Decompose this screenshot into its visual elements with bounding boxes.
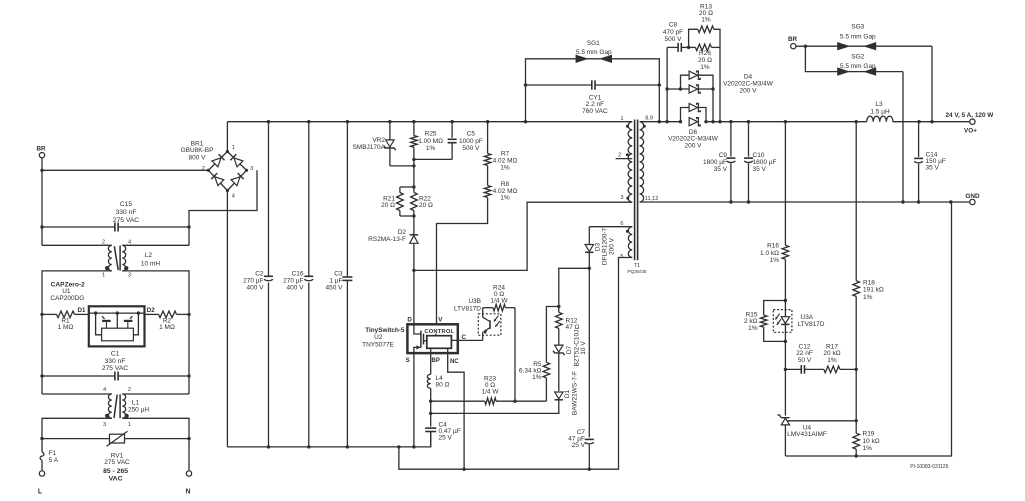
capacitor C8 470pF 500V bbox=[667, 46, 678, 48]
optocoupler U3B LTV817D phototransistor bbox=[478, 314, 501, 335]
svg-text:BP: BP bbox=[432, 358, 440, 364]
svg-text:1%: 1% bbox=[500, 164, 510, 171]
capacitor C15 330nF 275VAC bbox=[42, 226, 115, 228]
wire source rail B bbox=[399, 258, 632, 470]
svg-text:CONTROL: CONTROL bbox=[424, 329, 454, 335]
wire bridge pin4 to return rail bbox=[226, 191, 228, 447]
svg-text:SMBJ170A: SMBJ170A bbox=[352, 144, 385, 151]
diode D4 output rectifier lower bbox=[667, 88, 713, 90]
svg-text:200 V: 200 V bbox=[685, 143, 703, 150]
svg-text:1: 1 bbox=[128, 422, 131, 428]
terminal L bbox=[39, 471, 44, 476]
resistor R17 20kohm bbox=[824, 366, 840, 373]
svg-text:BAW21WS-7-F: BAW21WS-7-F bbox=[571, 371, 578, 415]
inductor L1 250uH common-mode choke bbox=[42, 393, 112, 395]
resistors R21 R22 20ohm parallel bbox=[412, 185, 415, 188]
svg-text:1%: 1% bbox=[532, 374, 542, 381]
svg-text:1%: 1% bbox=[827, 357, 837, 364]
resistor R15 2kohm bbox=[764, 301, 786, 316]
svg-text:1.5 µH: 1.5 µH bbox=[870, 109, 890, 116]
wire VR2 to clamp node bbox=[390, 165, 414, 167]
CAPZero internal wire bbox=[89, 312, 145, 314]
svg-text:1/4 W: 1/4 W bbox=[491, 298, 509, 305]
node R2 row right bbox=[187, 313, 190, 316]
node R13 tap bbox=[687, 46, 690, 49]
wire S pin to source rail bbox=[413, 353, 415, 447]
svg-text:8,9: 8,9 bbox=[645, 116, 653, 122]
svg-text:1%: 1% bbox=[863, 294, 873, 301]
wire to bridge pin 2 bbox=[42, 169, 208, 171]
svg-text:GBU8K-BP: GBU8K-BP bbox=[181, 147, 214, 154]
svg-text:500 V: 500 V bbox=[462, 145, 480, 152]
svg-text:1 MΩ: 1 MΩ bbox=[159, 324, 175, 331]
svg-text:6: 6 bbox=[620, 221, 623, 227]
svg-text:1%: 1% bbox=[748, 325, 758, 332]
svg-text:3: 3 bbox=[620, 195, 623, 201]
wire source rail A bbox=[227, 432, 430, 447]
svg-text:F1: F1 bbox=[49, 450, 57, 457]
capacitor C2 270uF 400V bbox=[268, 122, 270, 277]
svg-text:191 kΩ: 191 kΩ bbox=[863, 287, 884, 294]
resistor R23 0ohm bbox=[431, 400, 485, 402]
svg-text:SG1: SG1 bbox=[587, 40, 600, 47]
resistor R16 1.0kohm bbox=[782, 245, 789, 259]
capacitor C10 1800uF 35V bbox=[748, 122, 750, 157]
U2 internal MOSFET bbox=[414, 324, 421, 334]
svg-text:S: S bbox=[406, 357, 410, 364]
svg-text:250 µH: 250 µH bbox=[128, 406, 149, 413]
svg-text:NC: NC bbox=[450, 359, 459, 365]
node RV1 right bbox=[187, 437, 190, 440]
wire D3 node to divider bbox=[559, 268, 590, 306]
capacitor C7 47uF 25V bbox=[588, 268, 590, 437]
svg-text:400 V: 400 V bbox=[287, 285, 305, 292]
svg-text:C1: C1 bbox=[111, 351, 120, 358]
IC U1 CAPZero box bbox=[89, 306, 145, 346]
node R23/R24 bbox=[513, 400, 516, 403]
capacitor C5 1000pF 500V bbox=[451, 122, 453, 138]
terminal BR (primary DC bus sense) bbox=[39, 153, 44, 158]
svg-text:10 V: 10 V bbox=[580, 341, 587, 355]
capacitor CY1 2.2nF 760VAC bbox=[526, 84, 592, 86]
svg-text:C5: C5 bbox=[467, 131, 476, 138]
svg-text:5.5 mm Gap: 5.5 mm Gap bbox=[840, 34, 876, 41]
svg-text:C8: C8 bbox=[669, 22, 678, 29]
svg-text:35 V: 35 V bbox=[714, 166, 728, 173]
svg-text:200 V: 200 V bbox=[740, 87, 758, 94]
svg-text:1.00 MΩ: 1.00 MΩ bbox=[418, 138, 443, 145]
svg-text:GND: GND bbox=[965, 193, 980, 200]
node SG2 tap bbox=[804, 45, 807, 48]
wire feedback column bbox=[784, 122, 786, 246]
svg-text:N: N bbox=[185, 489, 190, 496]
wire right rail from bridge pin3 jog bbox=[189, 170, 257, 245]
svg-text:VAC: VAC bbox=[109, 475, 123, 482]
T1 secondary winding pins 8,9 - 11,12 bbox=[640, 122, 644, 202]
node R1 row left bbox=[40, 313, 43, 316]
svg-text:VO+: VO+ bbox=[964, 128, 977, 135]
node BP/line2 bbox=[430, 401, 432, 413]
capacitor C14 150uF 35V bbox=[918, 122, 920, 157]
resistor R18 191kohm bbox=[855, 122, 857, 281]
svg-text:25 V: 25 V bbox=[572, 442, 586, 449]
zener diode D7 BZT52-C10J 10V bbox=[558, 328, 560, 344]
resistor R24 0ohm bbox=[483, 307, 493, 309]
svg-text:1%: 1% bbox=[500, 195, 510, 202]
resistor R8 4.02Mohm bbox=[487, 166, 489, 186]
spark gap SG2 5.5mm bbox=[805, 46, 903, 71]
optocoupler U3A LTV817D LED bbox=[784, 301, 786, 342]
svg-text:270 µF: 270 µF bbox=[283, 278, 303, 285]
wire secondary return rail bbox=[640, 201, 970, 203]
svg-text:C15: C15 bbox=[120, 201, 133, 208]
svg-text:C16: C16 bbox=[292, 271, 304, 278]
terminal VO+ bbox=[970, 119, 975, 124]
wire SG3 riser to VO+ bbox=[931, 46, 933, 122]
svg-text:3: 3 bbox=[103, 422, 106, 428]
svg-text:TinySwitch-5: TinySwitch-5 bbox=[365, 327, 405, 334]
node RV1 left bbox=[40, 437, 43, 440]
svg-text:1%: 1% bbox=[701, 17, 711, 24]
svg-text:L2: L2 bbox=[145, 252, 153, 259]
T1 primary winding pins 1-2-3 bbox=[628, 122, 632, 203]
svg-text:800 V: 800 V bbox=[189, 154, 207, 161]
svg-text:85 - 265: 85 - 265 bbox=[103, 468, 128, 475]
node BP/line1 bbox=[430, 388, 432, 401]
spark gap SG1 5.5mm bbox=[526, 59, 660, 85]
node bias divider top bbox=[557, 305, 560, 308]
svg-text:20 Ω: 20 Ω bbox=[419, 202, 433, 209]
wire BP pin bbox=[430, 348, 432, 374]
svg-text:275 VAC: 275 VAC bbox=[113, 217, 139, 224]
svg-text:270 µF: 270 µF bbox=[243, 278, 263, 285]
U2 CONTROL block bbox=[427, 336, 452, 349]
IC U2 TinySwitch-5 TNY5077E bbox=[407, 324, 457, 353]
node D3 cathode bbox=[588, 267, 591, 270]
node C12 row bbox=[784, 341, 786, 415]
svg-text:R25: R25 bbox=[425, 131, 437, 138]
T1 bias winding pins 6-5 bbox=[628, 227, 632, 258]
svg-text:D1: D1 bbox=[78, 307, 86, 314]
svg-text:25 V: 25 V bbox=[439, 434, 453, 441]
svg-text:500 V: 500 V bbox=[665, 36, 683, 43]
wire B+ rail bbox=[227, 121, 632, 123]
svg-text:1%: 1% bbox=[863, 445, 873, 452]
svg-text:U3B: U3B bbox=[468, 298, 481, 305]
bridge rectifier BR1 GBU8K-BP 800V bbox=[208, 152, 246, 191]
svg-text:2: 2 bbox=[202, 166, 205, 172]
wire C pin bbox=[451, 339, 482, 341]
svg-text:275 VAC: 275 VAC bbox=[102, 365, 128, 372]
resistor R1 1Mohm bbox=[42, 313, 57, 315]
node R25/C5 bottom bbox=[412, 158, 415, 161]
svg-text:C2: C2 bbox=[255, 271, 264, 278]
svg-text:10 kΩ: 10 kΩ bbox=[863, 438, 880, 445]
svg-text:1 µF: 1 µF bbox=[329, 278, 342, 285]
svg-text:R7: R7 bbox=[501, 151, 510, 158]
shunt regulator U4 LMV431AIMF bbox=[778, 415, 790, 418]
svg-text:1: 1 bbox=[620, 116, 623, 122]
resistor R19 10kohm bbox=[853, 433, 860, 449]
wire R24 riser bbox=[514, 308, 516, 402]
node drain bbox=[412, 269, 415, 272]
svg-text:2: 2 bbox=[128, 387, 131, 393]
svg-text:D: D bbox=[407, 316, 412, 323]
svg-text:SG3: SG3 bbox=[851, 23, 864, 30]
diode D2 RS2MA-13-F bbox=[413, 216, 415, 244]
svg-text:1000 pF: 1000 pF bbox=[459, 138, 483, 145]
svg-text:1/4 W: 1/4 W bbox=[482, 388, 500, 395]
svg-text:35 V: 35 V bbox=[926, 164, 940, 171]
diode D6 output rectifier lower bbox=[689, 118, 697, 126]
svg-text:1%: 1% bbox=[700, 64, 710, 71]
capacitor C4 0.47uF 25V bbox=[430, 413, 432, 426]
wire feedback bottom rail bbox=[785, 202, 951, 456]
capacitor C9 1800uF 35V bbox=[730, 122, 732, 157]
svg-text:20 Ω: 20 Ω bbox=[381, 202, 395, 209]
node C1 right bbox=[187, 374, 190, 377]
resistor R26 20ohm bbox=[695, 44, 711, 51]
node R15 bottom bbox=[784, 340, 787, 343]
inductor L3 1.5uH bbox=[867, 116, 893, 122]
svg-text:4: 4 bbox=[232, 194, 235, 200]
terminal GND bbox=[970, 199, 975, 204]
svg-text:5: 5 bbox=[620, 254, 623, 260]
svg-text:50 V: 50 V bbox=[798, 357, 812, 364]
capacitor C3 1uF 450V bbox=[346, 122, 348, 277]
wire NC pin routing bbox=[448, 348, 464, 469]
resistor R2 1Mohm bbox=[145, 313, 159, 315]
svg-text:1: 1 bbox=[232, 145, 235, 151]
fuse F1 5A bbox=[41, 452, 43, 460]
wire drain node to D pin bbox=[413, 270, 415, 324]
svg-text:400 V: 400 V bbox=[247, 285, 265, 292]
svg-text:330 nF: 330 nF bbox=[116, 209, 137, 216]
svg-text:10 mH: 10 mH bbox=[141, 261, 160, 268]
svg-text:TNY5077E: TNY5077E bbox=[362, 341, 394, 348]
wire R8 to V pin bbox=[437, 198, 488, 325]
svg-text:U2: U2 bbox=[374, 334, 383, 341]
svg-text:5 A: 5 A bbox=[49, 457, 59, 464]
varistor RV1 275VAC bbox=[42, 438, 110, 440]
svg-text:330 nF: 330 nF bbox=[105, 358, 126, 365]
svg-text:L: L bbox=[38, 489, 43, 496]
wire U4 reference bbox=[787, 420, 856, 422]
svg-text:760 VAC: 760 VAC bbox=[582, 108, 608, 115]
svg-text:BR: BR bbox=[788, 36, 798, 43]
svg-text:200 V: 200 V bbox=[608, 237, 615, 255]
svg-text:2: 2 bbox=[102, 240, 105, 246]
svg-text:LTV817D: LTV817D bbox=[454, 306, 481, 313]
node: BR wire junction bbox=[40, 169, 43, 172]
wire BR terminal to node bbox=[41, 158, 43, 170]
svg-text:4: 4 bbox=[103, 387, 106, 393]
diode D3 DFLR1200-7 200V bbox=[589, 226, 632, 228]
svg-text:2: 2 bbox=[618, 152, 621, 158]
svg-text:5.5 mm Gap: 5.5 mm Gap bbox=[840, 63, 876, 70]
svg-text:5.5 mm Gap: 5.5 mm Gap bbox=[576, 49, 612, 56]
wire drain node to transformer pin3 bbox=[414, 202, 632, 270]
diode D4 output rectifier upper bbox=[681, 75, 714, 89]
resistor R25 1.00Mohm bbox=[413, 122, 415, 136]
svg-text:3: 3 bbox=[250, 166, 253, 172]
svg-text:1800 µF: 1800 µF bbox=[703, 159, 727, 166]
svg-text:470 pF: 470 pF bbox=[663, 29, 683, 36]
svg-text:1.0 kΩ: 1.0 kΩ bbox=[760, 250, 779, 257]
diode D6 output rectifier upper bbox=[681, 108, 707, 122]
svg-text:275 VAC: 275 VAC bbox=[104, 459, 130, 466]
svg-text:D3: D3 bbox=[594, 242, 601, 251]
capacitor C16 270uF 400V bbox=[308, 122, 310, 277]
svg-text:T1: T1 bbox=[634, 263, 640, 269]
svg-text:BR: BR bbox=[36, 146, 46, 153]
svg-text:L3: L3 bbox=[875, 101, 883, 108]
resistor R12 47ohm bbox=[558, 307, 560, 313]
svg-text:D4: D4 bbox=[744, 74, 753, 81]
node C15 left bbox=[40, 225, 43, 228]
terminal BR secondary bbox=[791, 44, 796, 49]
svg-text:11,12: 11,12 bbox=[645, 196, 659, 202]
svg-text:PQ35/35: PQ35/35 bbox=[627, 269, 647, 275]
svg-text:LMV431AIMF: LMV431AIMF bbox=[787, 431, 827, 438]
transformer T1 PQ35/35 core bbox=[634, 120, 636, 261]
svg-text:D2: D2 bbox=[147, 307, 155, 314]
svg-text:RS2MA-13-F: RS2MA-13-F bbox=[368, 236, 406, 243]
node R15 top bbox=[784, 299, 787, 302]
wire CY1 right column to secondary rail bbox=[658, 85, 660, 122]
wire SG2 riser to GND rail bbox=[902, 72, 904, 202]
wire D4 to rail riser bbox=[712, 89, 714, 122]
svg-text:U3A: U3A bbox=[801, 314, 814, 321]
wire CY1 left column to B+ rail bbox=[525, 85, 527, 122]
svg-text:PI-10083-031125: PI-10083-031125 bbox=[910, 464, 948, 470]
svg-text:450 V: 450 V bbox=[326, 285, 344, 292]
diode D1 BAW21WS-7-F bbox=[555, 392, 563, 399]
svg-text:CAP200DG: CAP200DG bbox=[50, 295, 84, 302]
wire left rail upper bbox=[41, 170, 43, 245]
svg-text:24 V, 5 A, 120 W: 24 V, 5 A, 120 W bbox=[945, 112, 994, 119]
node C15 right bbox=[187, 225, 190, 228]
terminal N bbox=[186, 471, 191, 476]
svg-text:1: 1 bbox=[102, 273, 105, 279]
svg-text:D1: D1 bbox=[564, 389, 571, 398]
resistor R5 6.34kohm bbox=[545, 378, 547, 401]
svg-text:R26: R26 bbox=[699, 50, 711, 57]
svg-text:20 Ω: 20 Ω bbox=[698, 57, 712, 64]
wire bridge pin1 to B+ rail bbox=[226, 122, 228, 152]
svg-text:SG2: SG2 bbox=[851, 54, 864, 61]
svg-text:4: 4 bbox=[128, 240, 131, 246]
svg-text:C3: C3 bbox=[334, 271, 343, 278]
resistor R7 4.02Mohm bbox=[487, 122, 489, 154]
node C1 left bbox=[40, 374, 43, 377]
capacitor C12 22nF 50V bbox=[785, 368, 801, 370]
svg-text:R19: R19 bbox=[863, 431, 875, 438]
inductor L2 10mH common-mode choke bbox=[42, 244, 112, 246]
svg-text:R18: R18 bbox=[863, 279, 875, 286]
svg-text:80 Ω: 80 Ω bbox=[436, 381, 450, 388]
spark gap SG3 5.5mm bbox=[796, 45, 932, 47]
wire secondary rail bbox=[640, 121, 681, 123]
svg-text:1%: 1% bbox=[770, 257, 780, 264]
svg-text:1 MΩ: 1 MΩ bbox=[58, 324, 74, 331]
capacitor C1 330nF 275VAC bbox=[42, 375, 115, 377]
resistor R13 20ohm bbox=[689, 29, 698, 47]
svg-text:1%: 1% bbox=[426, 145, 436, 152]
svg-text:1800 µF: 1800 µF bbox=[753, 159, 777, 166]
node VR2 join bbox=[412, 164, 415, 167]
svg-text:VR2: VR2 bbox=[372, 137, 385, 144]
svg-text:35 V: 35 V bbox=[753, 166, 767, 173]
snubber column bbox=[666, 47, 668, 121]
svg-text:3: 3 bbox=[128, 273, 131, 279]
svg-text:R16: R16 bbox=[767, 243, 779, 250]
ferrite bead L4 80ohm bbox=[427, 374, 430, 388]
CAPZero internal discharge devices bbox=[96, 313, 102, 335]
TVS diode VR2 SMBJ170A bbox=[389, 122, 391, 140]
svg-text:LTV817D: LTV817D bbox=[798, 321, 825, 328]
svg-text:D7: D7 bbox=[566, 345, 573, 354]
